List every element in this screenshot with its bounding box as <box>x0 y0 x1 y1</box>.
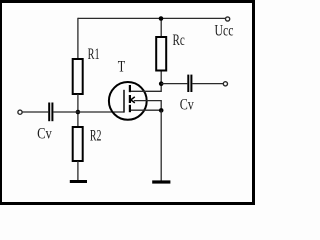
resistor Rc <box>156 37 166 71</box>
wire R2 bottom to ground <box>77 161 79 181</box>
terminal input <box>18 110 22 114</box>
capacitor Cv input <box>49 103 52 122</box>
wire drain lead <box>131 71 161 92</box>
ground left <box>70 180 87 183</box>
resistor R1 <box>73 59 83 94</box>
transistor T channel bar bulk <box>129 95 131 103</box>
transistor T body circle <box>109 82 147 120</box>
resistor R2 <box>73 127 83 161</box>
svg-text:T: T <box>118 59 126 76</box>
node junction drain/output <box>159 81 164 86</box>
node junction source/bulk <box>159 108 164 113</box>
transistor T channel bar source <box>129 105 131 112</box>
svg-text:R2: R2 <box>90 128 102 145</box>
wire top rail Ucc <box>78 17 226 19</box>
transistor T channel bar drain <box>129 85 131 92</box>
svg-text:Rc: Rc <box>173 32 185 49</box>
node junction input/bias <box>76 110 81 115</box>
wire bulk lead <box>134 101 161 111</box>
svg-text:Cv: Cv <box>37 126 52 143</box>
wire Cv output to terminal <box>192 83 223 85</box>
svg-text:Ucc: Ucc <box>215 23 234 40</box>
wire input terminal to Cv <box>22 111 48 113</box>
wire Cv to gate <box>53 111 124 113</box>
wire Rc top drop <box>160 18 162 37</box>
transistor T gate electrode <box>123 90 125 113</box>
wire source lead <box>131 109 161 111</box>
terminal Ucc <box>226 17 230 21</box>
wire source to ground <box>160 110 162 180</box>
wire drain junction to Cv output <box>161 83 187 85</box>
wire left rail top (to R1) <box>77 18 79 60</box>
ground right <box>152 180 170 183</box>
capacitor Cv output <box>188 75 191 92</box>
node junction top rail <box>159 16 164 21</box>
svg-text:R1: R1 <box>88 46 100 63</box>
svg-text:Cv: Cv <box>180 97 194 114</box>
wire R1 bottom to input rail <box>77 94 79 128</box>
terminal output <box>223 82 227 86</box>
transistor T bulk arrow <box>131 97 135 103</box>
